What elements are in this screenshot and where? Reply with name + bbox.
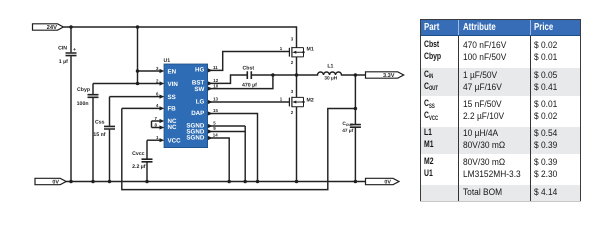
svg-text:M1: M1 bbox=[307, 46, 314, 52]
svg-text:COUT: COUT bbox=[342, 121, 354, 127]
svg-text:2: 2 bbox=[156, 78, 159, 83]
svg-text:470 µf: 470 µf bbox=[242, 82, 257, 88]
svg-text:2: 2 bbox=[291, 110, 294, 115]
svg-text:4: 4 bbox=[156, 103, 159, 108]
svg-text:Cbst: Cbst bbox=[243, 66, 255, 72]
svg-text:2.2 µf: 2.2 µf bbox=[132, 164, 146, 170]
svg-text:SS: SS bbox=[168, 94, 176, 101]
svg-text:100n: 100n bbox=[77, 101, 89, 107]
svg-text:8: 8 bbox=[155, 122, 158, 127]
svg-text:VIN: VIN bbox=[168, 81, 179, 88]
svg-text:3: 3 bbox=[156, 66, 159, 71]
svg-text:24V: 24V bbox=[47, 24, 57, 31]
svg-text:3: 3 bbox=[291, 89, 294, 94]
svg-text:+: + bbox=[73, 47, 76, 53]
svg-text:9: 9 bbox=[213, 126, 216, 131]
svg-text:M2: M2 bbox=[307, 97, 314, 103]
svg-text:3: 3 bbox=[291, 37, 294, 42]
svg-text:Cbyp: Cbyp bbox=[77, 87, 90, 93]
svg-text:EN: EN bbox=[168, 68, 177, 75]
svg-text:15: 15 bbox=[213, 108, 218, 113]
svg-text:47 µf: 47 µf bbox=[342, 128, 353, 134]
svg-text:VCC: VCC bbox=[168, 138, 182, 145]
svg-text:L1: L1 bbox=[327, 63, 333, 69]
svg-text:11: 11 bbox=[213, 65, 218, 70]
svg-text:0V: 0V bbox=[52, 180, 59, 186]
svg-text:CIN: CIN bbox=[58, 45, 67, 51]
svg-text:3.3V: 3.3V bbox=[383, 73, 395, 79]
svg-text:30 µH: 30 µH bbox=[324, 76, 337, 82]
svg-text:0V: 0V bbox=[384, 180, 391, 186]
svg-text:1 µf: 1 µf bbox=[59, 59, 68, 65]
svg-text:NC: NC bbox=[168, 124, 177, 131]
svg-text:15 nf: 15 nf bbox=[93, 132, 105, 138]
svg-text:LG: LG bbox=[196, 98, 205, 105]
svg-text:13: 13 bbox=[213, 97, 218, 102]
svg-text:1: 1 bbox=[280, 97, 283, 102]
svg-text:6: 6 bbox=[156, 91, 159, 96]
svg-text:SGND: SGND bbox=[186, 134, 204, 141]
svg-text:7: 7 bbox=[155, 116, 158, 121]
svg-text:SW: SW bbox=[194, 86, 204, 93]
svg-text:5: 5 bbox=[213, 121, 216, 126]
svg-text:Cvcc: Cvcc bbox=[132, 151, 145, 157]
svg-text:HG: HG bbox=[195, 67, 204, 74]
svg-text:14: 14 bbox=[213, 133, 218, 138]
svg-text:1: 1 bbox=[280, 46, 283, 51]
svg-text:10: 10 bbox=[213, 83, 218, 88]
svg-text:2: 2 bbox=[291, 60, 294, 65]
svg-text:Css: Css bbox=[95, 120, 105, 126]
svg-text:12: 12 bbox=[213, 78, 218, 83]
svg-text:U1: U1 bbox=[164, 58, 171, 64]
svg-text:FB: FB bbox=[168, 106, 177, 113]
svg-text:1: 1 bbox=[156, 135, 159, 140]
svg-text:DAP: DAP bbox=[191, 110, 204, 117]
